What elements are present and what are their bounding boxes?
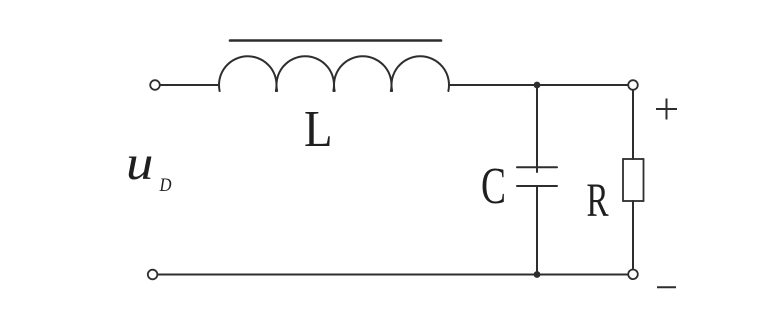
svg-text:D: D (159, 174, 172, 195)
svg-text:L: L (304, 100, 333, 158)
svg-text:u: u (126, 137, 153, 191)
svg-text:C: C (481, 157, 506, 214)
svg-text:R: R (587, 173, 609, 227)
